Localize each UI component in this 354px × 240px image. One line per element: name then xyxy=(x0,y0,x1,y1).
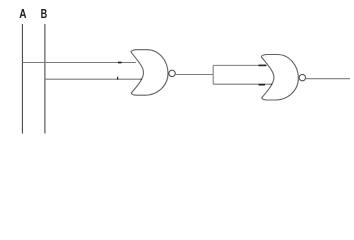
junction dot U2 lower input at gate edge xyxy=(271,83,273,85)
svg-text:B: B xyxy=(41,6,48,21)
pin stub U2 lower input xyxy=(259,84,266,86)
NOR gate U1 body xyxy=(131,50,168,95)
wire: split node to U2 upper input xyxy=(213,64,267,66)
wire: U2 output xyxy=(306,78,350,80)
wire: input rail B (vertical) xyxy=(44,24,46,134)
NOR gate U1 output bubble xyxy=(169,70,175,76)
wire: split node to U2 lower input xyxy=(213,83,272,85)
junction dot U1 lower input at gate edge xyxy=(141,78,143,80)
wire: input rail A (vertical) xyxy=(21,24,23,134)
wire: split node vertical xyxy=(212,65,214,84)
junction tick on U1 upper input xyxy=(118,62,122,64)
wire: U1 output to split node xyxy=(176,74,214,76)
wire: B to U1 input xyxy=(45,78,141,80)
pin stub U2 upper input xyxy=(259,64,267,66)
NOR gate U2 output bubble xyxy=(299,74,305,80)
wire: A to U1 input xyxy=(22,62,136,64)
svg-text:A: A xyxy=(19,6,27,21)
junction tick on U1 lower input xyxy=(117,77,119,80)
NOR gate U2 body xyxy=(261,55,298,101)
